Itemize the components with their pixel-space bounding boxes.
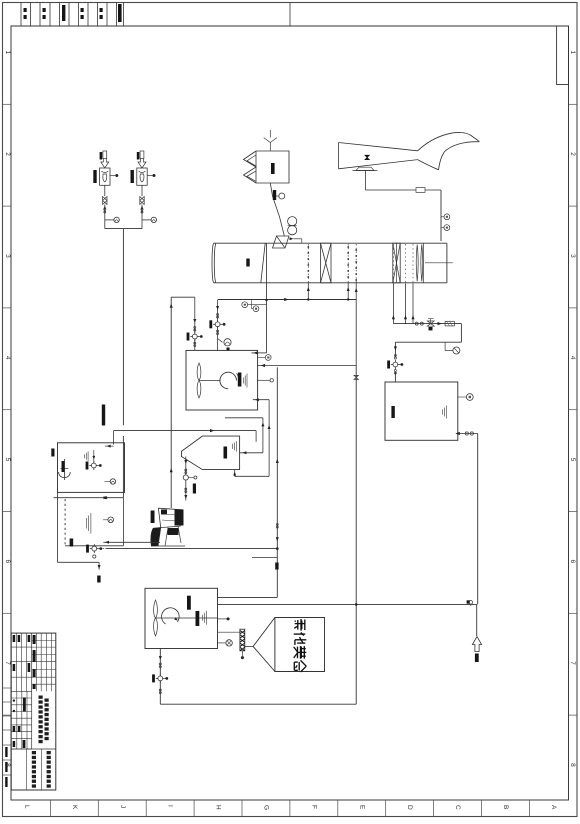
zone tick marks left band	[3, 103, 12, 105]
valve on feed line	[103, 197, 107, 205]
inline filter on quench manifold	[445, 321, 454, 326]
flue gas duct wedge	[338, 143, 340, 169]
pipe feeder to silo cone	[245, 645, 253, 647]
svg-text:4: 4	[569, 356, 576, 360]
pipe filtrate line y549	[106, 548, 278, 550]
title block drawing title text	[39, 696, 43, 699]
pipe manifold from feed units	[105, 228, 142, 230]
branch to booster fan circle	[444, 342, 446, 350]
duct end chamber plate	[423, 243, 425, 283]
settler underflow valve	[185, 457, 187, 475]
cross valve inside tank T5	[93, 450, 95, 463]
valve on feed line	[140, 197, 144, 205]
pipe drop into duct end chamber	[440, 190, 442, 241]
svg-text:7: 7	[4, 661, 11, 665]
tank T6 level marks	[86, 518, 88, 529]
quench pipe route to tank2	[460, 324, 462, 343]
tank T2 level symbol	[442, 410, 444, 415]
left band record cells	[3, 687, 12, 689]
centrifuge frame lines	[165, 528, 168, 546]
svg-text:3: 3	[569, 254, 576, 258]
instrument circle near header	[251, 300, 253, 309]
duct tube bank lenses	[416, 245, 418, 282]
tank T5 feed drop with arrow	[113, 431, 115, 445]
tank T6 dashed left edge	[64, 499, 66, 547]
pipe bottom return y704	[160, 703, 356, 705]
zone tick marks right band	[569, 103, 578, 105]
svg-text:2: 2	[569, 152, 576, 156]
tank T6 bottom edge	[65, 545, 123, 547]
svg-text:B: B	[502, 805, 509, 809]
tank T1 shell	[186, 350, 258, 410]
tank T1 level symbol	[243, 378, 245, 384]
silo cone	[253, 618, 275, 647]
pipe from wedge outlet down	[365, 171, 367, 191]
recirculation pump circle at tank top	[218, 339, 223, 343]
svg-text:J: J	[119, 805, 126, 808]
quench water manifold	[393, 323, 461, 325]
title block outline	[11, 633, 56, 790]
rotary valve circle below hopper	[279, 193, 285, 199]
zone tick marks bottom band	[49, 800, 51, 817]
tank T1 top nozzle line B	[217, 300, 219, 350]
tank T5 outside label	[51, 449, 54, 457]
valve at loop junction	[467, 600, 470, 603]
pump circle on feed line	[142, 219, 151, 221]
tank T5 shell	[58, 443, 125, 493]
quench risers to rear duct	[392, 284, 394, 324]
svg-text:6: 6	[569, 560, 576, 564]
tank T2 bottom-right inlet valves	[458, 433, 478, 435]
tank T6 label M	[70, 539, 74, 547]
svg-text:K: K	[71, 805, 78, 810]
feed hopper unit at x=104.8	[103, 151, 107, 159]
silo char 4	[294, 660, 306, 672]
svg-text:2: 2	[4, 152, 11, 156]
tank T1 right stub with circle	[258, 379, 270, 381]
duct left end cap	[212, 243, 214, 283]
instrument circle on drain line	[242, 302, 248, 308]
main horizontal duct shell	[214, 242, 447, 244]
tank T4 propeller agitator	[154, 600, 158, 618]
svg-text:C: C	[454, 805, 461, 810]
tank T4 shell	[145, 588, 218, 648]
pipe from wedge outlet to scrubber	[366, 189, 442, 191]
pipe left riser x171	[170, 297, 172, 508]
svg-text:E: E	[358, 805, 365, 810]
tank T5 left edge drain drop	[57, 492, 59, 562]
settler label	[224, 447, 228, 459]
title block middle entries	[13, 699, 15, 701]
svg-text:L: L	[23, 805, 30, 809]
pipe main drop from feed units	[122, 229, 124, 426]
tank T1 circulation arc	[220, 372, 237, 389]
damper on wedge centerline	[365, 155, 369, 159]
duct drain line to tank T1	[266, 244, 268, 353]
wedge outlet bracket	[356, 167, 374, 170]
tank T1 top nozzle line A	[194, 297, 196, 350]
svg-text:4: 4	[4, 356, 11, 360]
pipe centrifuge outlet y557	[252, 557, 277, 559]
settler underflow pipe to centrifuge	[185, 480, 187, 500]
coal hopper bunker	[244, 151, 290, 183]
silo char 1	[294, 619, 305, 631]
tank T1 inlet from recycle line	[258, 365, 357, 367]
tank T4 drain line	[159, 649, 161, 705]
title block signature grid	[11, 646, 32, 648]
title block signature entries	[13, 635, 16, 642]
title block bottom section	[11, 748, 56, 750]
svg-text:5: 5	[4, 458, 11, 462]
duct right demister X	[393, 243, 400, 283]
tank T6 top edge	[54, 497, 124, 499]
silo char 3	[294, 646, 307, 659]
svg-text:H: H	[215, 805, 222, 810]
svg-text:8: 8	[569, 763, 576, 767]
settler level marks	[232, 444, 234, 449]
silo MgO bin shell	[275, 618, 325, 672]
tank T1 label	[238, 373, 242, 387]
svg-text:7: 7	[569, 661, 576, 665]
pipe from left riser to nozzle A	[171, 296, 195, 298]
tank T5 anchor agitator	[63, 459, 65, 480]
tank T4 rotation arrow arc	[162, 608, 180, 624]
cross valve on nozzle A	[190, 336, 199, 338]
title block revision columns	[31, 633, 33, 749]
svg-text:5: 5	[569, 458, 576, 462]
pipe drop from tank2 valves x477	[477, 434, 479, 605]
tank T4 shaft stub dot	[218, 618, 227, 620]
svg-text:D: D	[406, 805, 413, 810]
top-right frame box	[557, 26, 569, 85]
instrument circle TI-1	[441, 216, 444, 218]
spray header pipe	[218, 299, 357, 301]
svg-text:3: 3	[4, 254, 11, 258]
tank T5 pump circle	[105, 481, 111, 483]
feeder bottom stub dot	[241, 651, 243, 656]
tank T4 level symbol	[201, 615, 203, 621]
slanted feeder chute into duct	[273, 236, 290, 248]
cross valve feeding tank2	[391, 364, 400, 366]
svg-text:A: A	[550, 805, 557, 810]
title block company name text	[32, 751, 36, 754]
spray riser 3 dotted in duct	[355, 244, 357, 283]
damper rect on pipe	[416, 188, 425, 193]
title block middle grid	[11, 697, 32, 699]
pipe label on main drop	[102, 405, 105, 426]
svg-text:1: 1	[569, 51, 576, 55]
hopper outlet line	[270, 183, 284, 236]
centrifuge body	[158, 508, 182, 527]
duct label M	[246, 259, 249, 267]
silo char 2	[294, 633, 307, 645]
tank T6 outlet cross valve	[93, 546, 95, 552]
top revision table grid	[11, 25, 569, 27]
pipe riser x277 to tank4	[276, 367, 278, 597]
settler overflow branch	[225, 417, 263, 419]
spray riser 1 dotted in duct	[307, 244, 309, 283]
settler feed pipe	[114, 430, 257, 432]
centrifuge label	[151, 511, 155, 524]
top revision table rotated entries	[24, 8, 27, 12]
tank T5 right edge drop line	[122, 443, 124, 498]
twin roots blower circles	[288, 217, 297, 226]
spray riser 2 dotted in duct	[347, 244, 349, 283]
svg-text:6: 6	[4, 560, 11, 564]
valve on quench manifold	[427, 321, 434, 326]
duct slanted partition	[261, 243, 265, 283]
settler shell with cone	[182, 436, 240, 470]
svg-text:1: 1	[4, 51, 11, 55]
pipe into tank4 right top	[218, 596, 278, 598]
pipe to feeder top	[218, 631, 241, 633]
tank T4 labels	[187, 596, 191, 610]
cross valve on nozzle B	[213, 323, 222, 325]
duct right end cap and centerline	[446, 243, 448, 283]
svg-text:I: I	[167, 805, 174, 807]
cross valve on tank T4 drain	[156, 677, 165, 679]
tank T6 pump circle	[103, 519, 108, 521]
tank T5 level symbol	[84, 454, 86, 458]
title block project name text	[47, 751, 51, 754]
instrument circle tank T1 right	[258, 357, 266, 359]
feed hopper unit at x=142.0	[140, 151, 144, 159]
pipe long loop y604	[218, 603, 477, 605]
tank T2 labels	[391, 406, 394, 418]
drain line from tank T5 left edge	[58, 561, 100, 563]
svg-text:F: F	[310, 805, 317, 809]
duct X mixer	[321, 243, 332, 283]
instrument circle tank T2	[458, 396, 466, 398]
tank T2 shell	[385, 382, 458, 440]
rotary feeder hatched block	[240, 629, 245, 651]
tank T1 propeller agitator	[197, 363, 201, 380]
pipe centrate arrow line y542	[103, 541, 160, 543]
tank T1 bottom-right inlet loop	[253, 399, 269, 401]
screw feeder blower circle	[218, 642, 226, 644]
instrument circle TI-2	[441, 227, 444, 229]
pipe x477 lower stub with arrow terminator	[476, 604, 478, 636]
funnel inlet symbol	[269, 130, 271, 138]
svg-text:G: G	[263, 805, 270, 810]
pump circle on feed line	[105, 219, 114, 221]
centrifuge extra black parts	[161, 510, 167, 515]
centrifuge discharge cone	[151, 528, 161, 546]
swan neck curved outlet	[418, 132, 480, 169]
recycle riser x356 with valve	[355, 300, 357, 366]
